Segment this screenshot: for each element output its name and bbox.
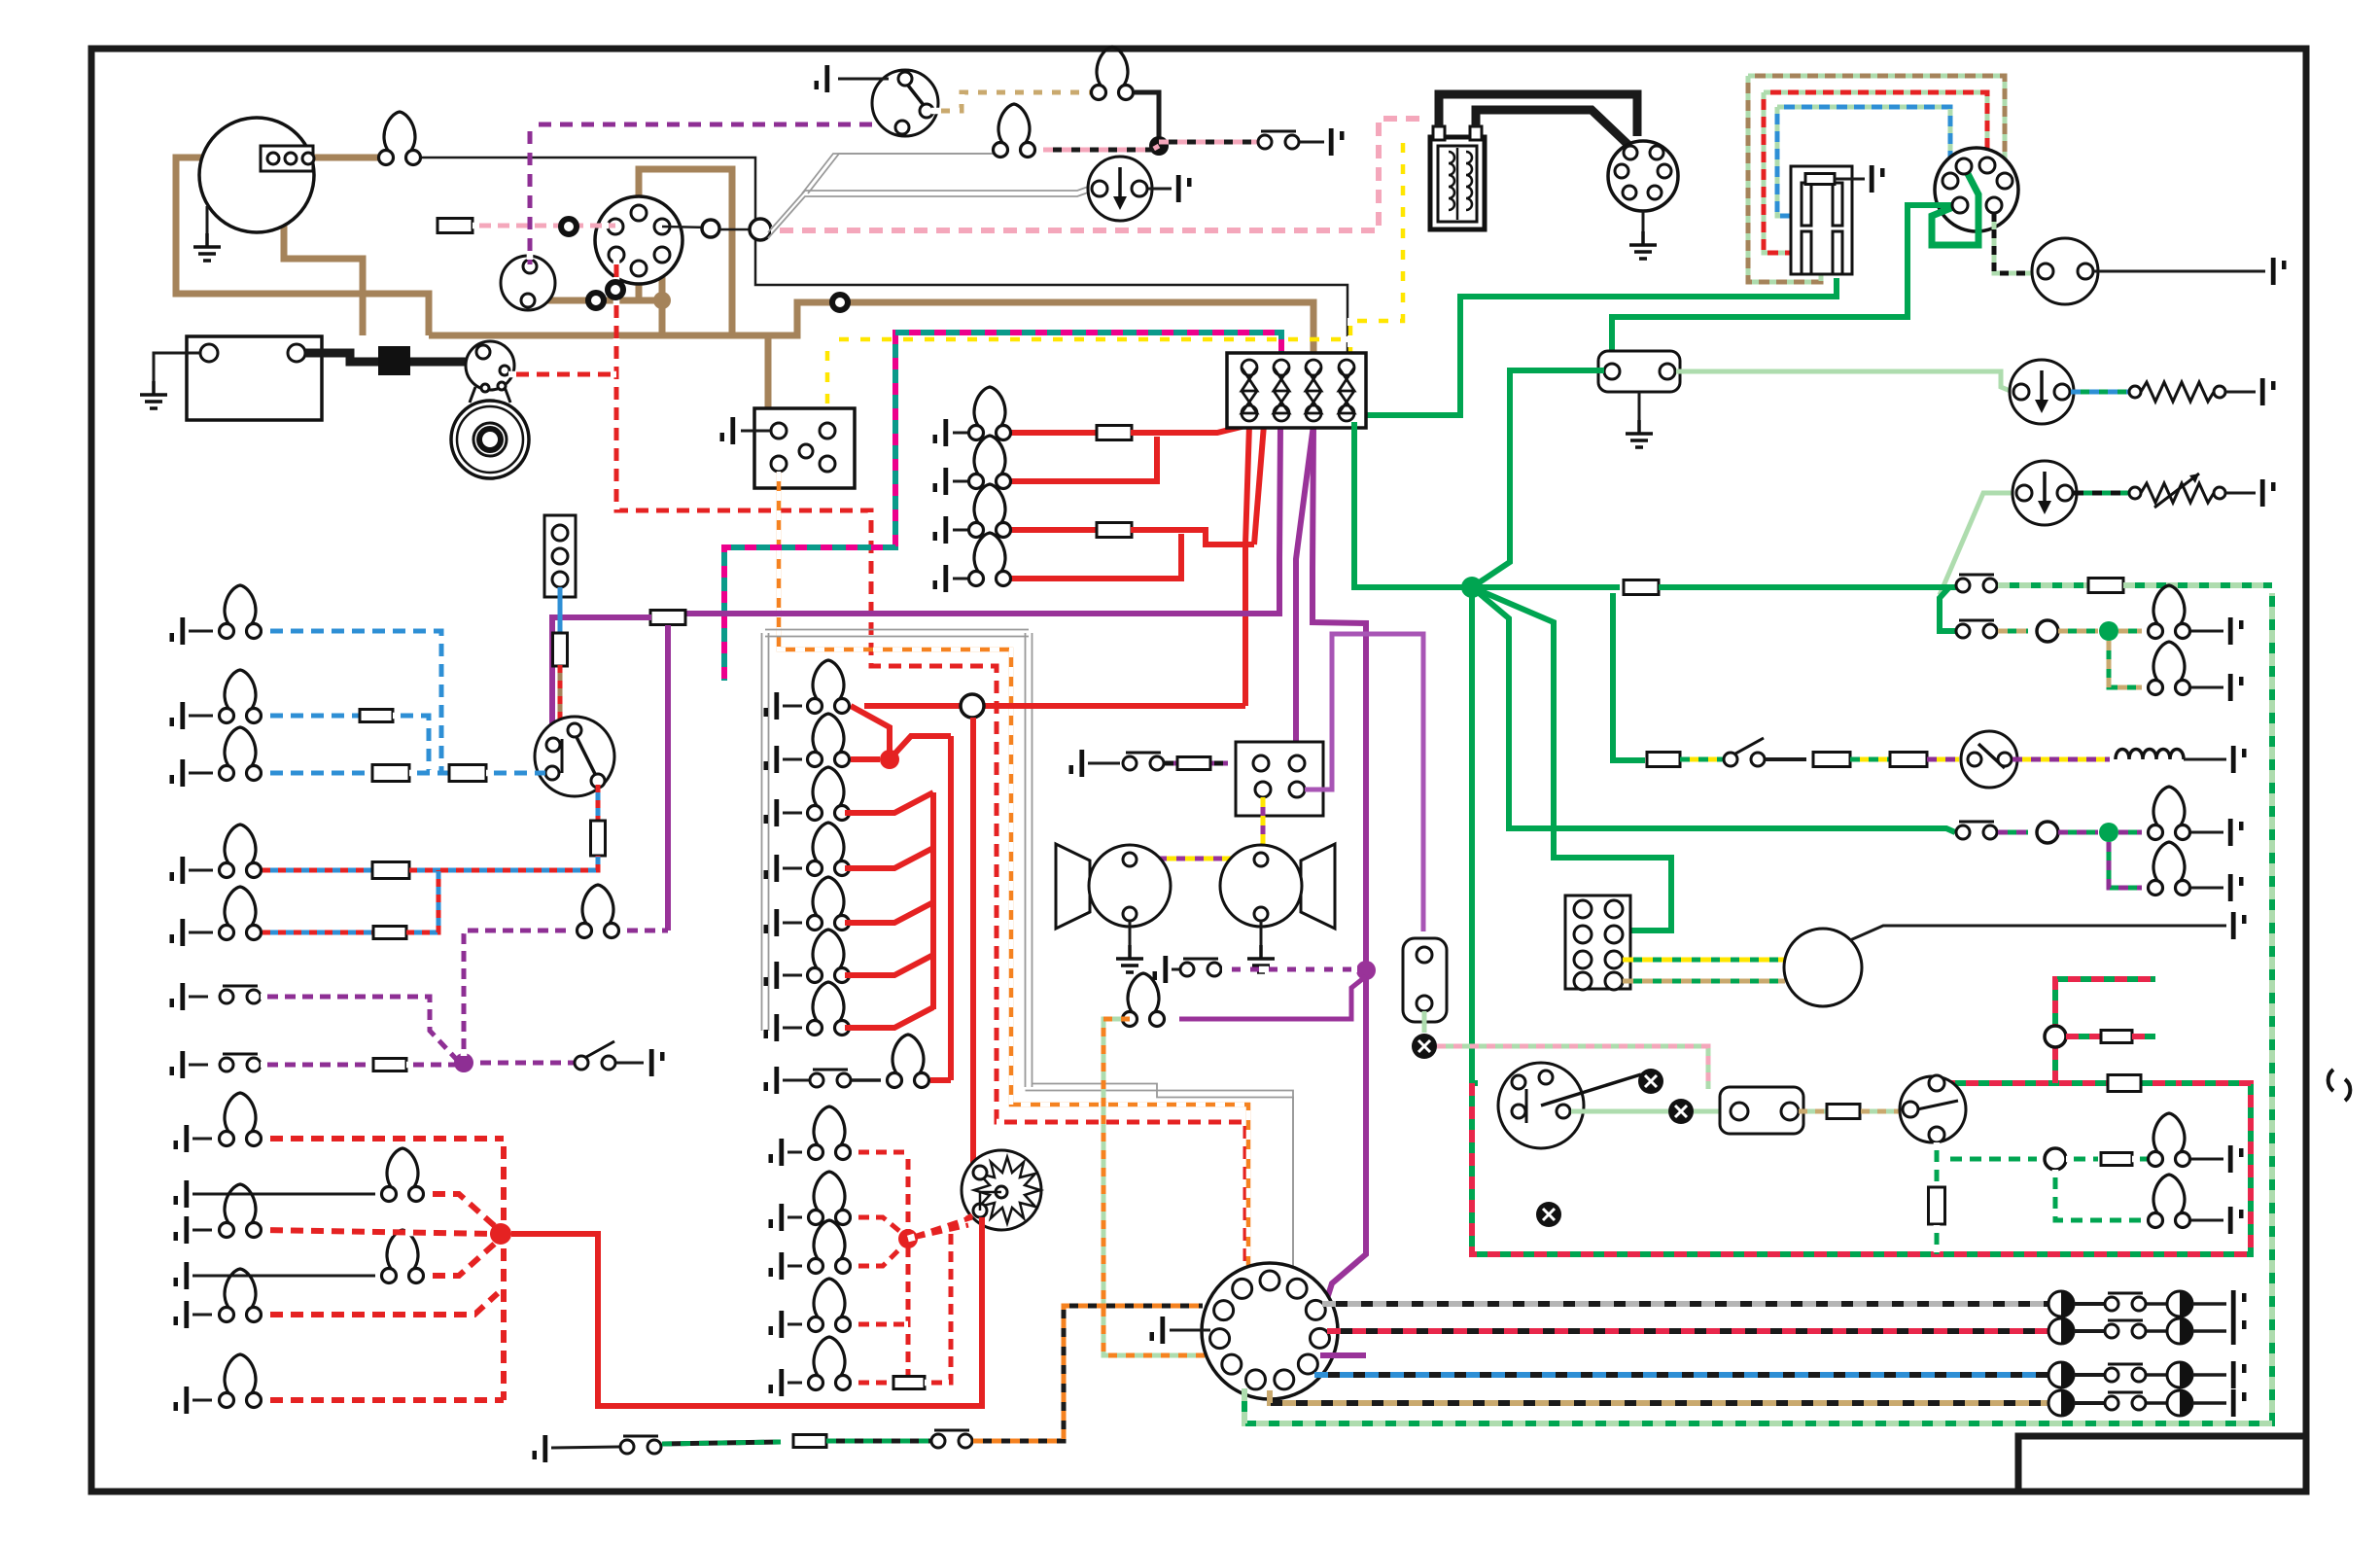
bulb bulb f2: [220, 1184, 262, 1238]
wire lgrn org map: [1103, 1019, 1206, 1355]
fuse F-p2: [373, 1059, 406, 1071]
wire lead red1: [953, 480, 976, 483]
wire blk right: [2093, 270, 2265, 273]
battery: [187, 336, 322, 420]
connector ring R1: [561, 219, 577, 234]
wire green diag2: [1472, 587, 1671, 931]
control box: [754, 408, 855, 488]
wire tan dash: [931, 92, 1091, 111]
wire purple trunk P3: [1312, 425, 1366, 972]
dip switch: [535, 717, 614, 796]
wire purple dash horiz: [530, 123, 875, 127]
wire grn tan r2b: [2058, 629, 2098, 634]
wire yel od3: [1927, 757, 1959, 762]
wire dl mid 1443: [2074, 1401, 2104, 1405]
wire green down: [1472, 587, 1478, 1083]
wire dl gnd 1443: [2192, 1401, 2226, 1405]
wire yellow horiz: [827, 338, 1350, 341]
wire pink main: [771, 119, 1427, 230]
fuse box: [1227, 353, 1366, 428]
wire pgrn tan link: [1799, 1109, 1826, 1114]
warning lamp WL-2: [1668, 1099, 1694, 1124]
ground G-door: [649, 1049, 665, 1076]
ground G-b4: [170, 857, 186, 884]
wire lead c0: [783, 705, 802, 708]
wire brown bus: [429, 302, 1313, 365]
wiper relay box: [1791, 166, 1852, 274]
wire dl mid 1369: [2074, 1329, 2104, 1333]
wire grn pale r1b: [2123, 582, 2272, 588]
wire dl mid2 1369: [2147, 1329, 2167, 1333]
switch SW-door: [575, 1041, 615, 1070]
wire red row 4: [1003, 534, 1181, 579]
wire blue r1: [262, 631, 441, 773]
wire lead red2: [953, 529, 976, 532]
wire red link 3: [845, 848, 933, 868]
bulb bulb r4: [2149, 787, 2190, 840]
wire red link row2: [851, 756, 880, 762]
wire redw r3: [852, 1322, 908, 1327]
wire green bottom: [1244, 593, 2272, 1423]
wire bh blue line: [1314, 1372, 2048, 1378]
wire brown gauge loop A: [176, 158, 429, 335]
junction brown: [653, 292, 671, 309]
wire fuel sender wire: [2071, 390, 2129, 395]
wire blue r2b: [393, 716, 429, 773]
wire orange dash: [779, 472, 1248, 1269]
wire greenred up: [2055, 979, 2155, 1083]
ground G-e4: [769, 1369, 785, 1396]
bulb bulb b3: [220, 727, 262, 781]
bulb bulb c3: [808, 823, 850, 876]
bulb bulb c4: [808, 877, 850, 931]
wire lead red0: [953, 432, 976, 435]
main light switch: [1498, 1063, 1584, 1148]
bulb bulb red0: [969, 387, 1011, 440]
wire lead b3: [189, 772, 213, 775]
wire pur diag: [1179, 976, 1366, 1019]
switch SW-p2: [220, 1054, 261, 1071]
connector C-red: [961, 694, 984, 718]
bulb bulb f1: [382, 1148, 424, 1202]
wire temp sender wire: [2074, 491, 2129, 496]
ground G-hL: [1116, 945, 1143, 972]
switch SW-od2: [1724, 738, 1765, 766]
wire pink wire long: [662, 227, 711, 228]
wire gnd lead r2b: [2191, 686, 2223, 689]
fog switch: [1900, 1076, 1966, 1142]
wire purw r2b: [406, 1063, 457, 1068]
wire grntan dyn: [1623, 979, 1785, 984]
ground G-rev: [533, 1435, 548, 1462]
bulb bulb red2: [969, 484, 1011, 538]
ground gauge earth: [193, 233, 221, 261]
wire gnd lead gw2: [2191, 1219, 2223, 1222]
fuse F-pur: [650, 611, 685, 625]
wire dl mid2 1443: [2147, 1401, 2167, 1405]
wire yelpur od: [2012, 757, 2110, 762]
ground G-r2: [2228, 617, 2244, 645]
bulb bulb map: [1123, 973, 1165, 1027]
wire rg loop2: [1764, 92, 1802, 253]
wire brown 7pin bottom: [636, 268, 643, 300]
wire red dash solenoid stub: [508, 372, 616, 377]
wire hornL gnd: [1129, 921, 1132, 945]
wire grn pur drop: [2109, 842, 2142, 888]
wire red link 2: [845, 792, 933, 813]
bulb bulb r4b: [2149, 842, 2190, 895]
connector C-r2: [2037, 620, 2058, 642]
ground G-b2: [170, 702, 186, 729]
bulb bulb c0: [808, 660, 850, 714]
ground G-r4: [2228, 819, 2244, 846]
wire purple fan 1: [1296, 425, 1313, 742]
wire yellow drop: [826, 339, 829, 428]
starter motor: [451, 401, 529, 478]
wire grn tan drop: [2109, 641, 2142, 687]
bulb bulb red1: [969, 436, 1011, 489]
ammeter gauge: [199, 118, 314, 232]
bulb bulb c2: [808, 767, 850, 821]
wire lead f3: [192, 1275, 375, 1278]
wire blue r3b: [409, 771, 449, 776]
wire grn jog r2: [1940, 587, 1955, 631]
ground G-p1: [170, 983, 186, 1010]
bulb bulb c5: [808, 930, 850, 983]
wire yelgrn od2: [1850, 757, 1891, 762]
wire coil HT 2: [1476, 110, 1631, 148]
wire grey pair: [765, 629, 1029, 631]
fuse element 1285: [1242, 360, 1257, 421]
wire purple left drop: [552, 617, 651, 741]
wire dyn black: [1850, 926, 2226, 940]
ground G-map: [1153, 956, 1169, 983]
wire green right2: [1659, 584, 1956, 590]
connector C2: [750, 219, 771, 240]
wire grn tan r2c: [2118, 629, 2142, 634]
bulb bulb b2: [220, 670, 262, 723]
temp sender: [2129, 487, 2141, 499]
oil pressure gauge: [1088, 157, 1152, 221]
fuse F-b2: [360, 710, 393, 722]
wire purple fan 2: [1279, 425, 1280, 616]
wire black pink 3: [1159, 140, 1258, 145]
ground G-e0: [769, 1139, 785, 1166]
wire pink wire: [472, 224, 615, 228]
ground G-d1369: [2231, 1317, 2247, 1345]
wire purw to switch: [473, 1061, 574, 1066]
fuse F-rev: [793, 1435, 826, 1448]
wire lead c5: [783, 974, 802, 977]
fuse F-r3: [1097, 523, 1132, 538]
wire fuel gnd lead: [2225, 391, 2256, 394]
light switch connector: [1935, 148, 2018, 231]
wire green up: [1472, 370, 1604, 587]
wire purple blk horn: [1165, 761, 1228, 766]
switch SW-p1: [220, 986, 261, 1003]
wire blk od gnd: [2184, 758, 2226, 761]
wire red bus A: [930, 792, 936, 1009]
ground G-cb: [720, 417, 736, 444]
ignition coil: [1430, 137, 1485, 229]
fuse element 1385: [1339, 360, 1354, 421]
ground G-d1341: [2231, 1290, 2247, 1317]
ground G-e1: [769, 1204, 785, 1231]
lamp DL-1414: [2048, 1362, 2074, 1387]
ground G-fl: [1626, 420, 1653, 447]
wire lead c3: [783, 867, 802, 870]
wire coil HT 1: [1439, 94, 1637, 136]
wire lead c6: [783, 1027, 802, 1030]
wire purple dash vert: [528, 123, 533, 264]
fuse F-b3b: [449, 765, 486, 782]
wire blue r2: [262, 714, 360, 719]
wire lead c8b: [852, 1078, 881, 1082]
ground G-c4: [764, 909, 780, 936]
wire purw r2: [261, 1063, 373, 1068]
wire temp gnd lead: [2225, 492, 2256, 495]
wire battery cable: [305, 353, 486, 362]
wire red c8: [930, 1077, 951, 1083]
wire pur-yel horns: [1139, 797, 1263, 859]
fuse F-wm: [1805, 174, 1835, 185]
wire greenred br: [2066, 1034, 2100, 1039]
bulb inline connector: [379, 112, 421, 165]
ground battery earth: [140, 381, 167, 408]
wire redd r1: [425, 1194, 496, 1227]
wire gnd lead oil: [1148, 188, 1172, 191]
wire grn pale r1: [1998, 582, 2088, 588]
fuse F-b3: [372, 765, 409, 782]
fuse element 1318: [1274, 360, 1289, 421]
ground G-oil: [1176, 175, 1192, 202]
wire purw riser: [464, 931, 571, 1056]
wire yellow dash ovl: [1350, 131, 1403, 362]
wire brown connector link: [528, 298, 662, 304]
wire bluered r4: [262, 868, 373, 873]
ground G-e2: [769, 1252, 785, 1280]
bulb bulb panel: [577, 885, 619, 938]
wire magenta trunk: [724, 333, 1281, 681]
bulb warn bulb 2: [994, 104, 1035, 158]
ground G-c6: [764, 1014, 780, 1041]
wire lead map: [1172, 968, 1179, 971]
wire red row 1: [1003, 430, 1098, 436]
wire brown 7pin top: [639, 169, 732, 335]
wire green diag1: [1472, 587, 1955, 832]
wire black pink 1: [1135, 92, 1159, 142]
junction purple dash: [454, 1053, 473, 1072]
wire gauge ground lead: [206, 206, 209, 233]
wire red drop long: [970, 718, 976, 1170]
ground G-ob: [1329, 128, 1345, 156]
wire yelgrn od: [1680, 757, 1727, 762]
wire grey pair 2: [1032, 1084, 1294, 1275]
wire dl mid2 1414: [2147, 1373, 2167, 1377]
junction block: [1565, 895, 1630, 989]
wire blkgrn2: [826, 1439, 930, 1444]
wire lead e4: [787, 1382, 802, 1385]
wire bh grey line: [1322, 1301, 2048, 1307]
wire gnd lead bh: [1170, 1329, 1210, 1332]
horn L: [1056, 844, 1090, 929]
wire gnd lead gw1: [2191, 1158, 2223, 1161]
wire rg loop: [1764, 92, 1987, 161]
ground G-e3: [769, 1311, 785, 1338]
wire redw r2: [852, 1245, 904, 1266]
wire greenred left: [1942, 1080, 2178, 1086]
wire grnw row2: [1942, 1157, 2037, 1162]
ground G-f2: [174, 1216, 190, 1244]
wire white pair bulb: [802, 154, 994, 193]
fuse F-od1: [1647, 753, 1680, 767]
wire bg loop2: [1777, 107, 1802, 216]
connector C-r4: [2037, 822, 2058, 843]
fusible link: [378, 346, 410, 375]
ground G-red0: [933, 419, 949, 446]
wire green C: [1612, 205, 1960, 365]
wire dl mid 1414: [2074, 1373, 2104, 1377]
wire redw r0: [852, 1150, 908, 1155]
ground G-wm: [1870, 165, 1885, 193]
wire lead f1: [192, 1193, 375, 1196]
wire brown gauge loop B: [284, 166, 363, 335]
junction red dash 2: [490, 1223, 511, 1245]
fuse element 1351: [1306, 360, 1321, 421]
ground G-b1: [170, 617, 186, 645]
wire bh tan line: [1270, 1390, 2048, 1403]
wire redw diag1: [908, 1217, 972, 1239]
wire bluered r5b: [406, 870, 438, 932]
bulb bulb b1: [220, 585, 262, 639]
wire red fan 2: [1254, 425, 1264, 544]
junction black: [1149, 136, 1169, 156]
wire thin black to fusebox: [415, 158, 1347, 365]
wire grn pur r4b: [2058, 830, 2098, 835]
dynamo: [1784, 929, 1862, 1006]
ground G-b3: [170, 759, 186, 787]
fuse F-r1: [1097, 426, 1132, 440]
bulb bulb r2: [2149, 585, 2190, 639]
connector C-gr: [2045, 1026, 2066, 1047]
bulb bulb r2b: [2149, 642, 2190, 695]
wire red top horiz: [864, 703, 1245, 709]
bulb bulb c6: [808, 982, 850, 1036]
wire lead c8: [783, 1079, 809, 1082]
wire gnd lead r2: [2191, 630, 2223, 633]
wire grnw row3: [2066, 1157, 2098, 1162]
wire bluered r5: [262, 931, 373, 935]
wire pgrn box link: [1694, 1109, 1732, 1114]
distributor: [1608, 141, 1678, 211]
wire bluered r4b: [409, 856, 598, 870]
solenoid coil: [2116, 750, 2184, 760]
wire yellow wire: [1350, 131, 1403, 365]
wire brnred drop: [558, 665, 563, 720]
bulb bulb gw1: [2149, 1113, 2190, 1167]
bulb bulb e3: [809, 1279, 851, 1332]
switch SW-d1443: [2105, 1392, 2146, 1410]
wire gnd lead door: [616, 1062, 644, 1065]
wire redd r4: [262, 1293, 498, 1315]
3-pin connector: [501, 256, 555, 310]
ground G-f4: [174, 1301, 190, 1328]
switch SW-od: [931, 1430, 972, 1448]
ground G-d1443: [2231, 1389, 2247, 1417]
ground G-p2: [170, 1051, 186, 1078]
wire white pair: [768, 186, 1091, 232]
fuse F-e4: [893, 1377, 925, 1389]
wire grnw row4: [2132, 1157, 2155, 1162]
connector C-gw: [2045, 1148, 2066, 1170]
brake warning connector: [1403, 938, 1447, 1022]
wire lead horn: [1088, 762, 1120, 765]
wire redw v: [906, 1152, 911, 1383]
bulb bulb f0: [220, 1093, 262, 1146]
wire lead f2: [192, 1229, 212, 1232]
wire battery earth lead: [154, 353, 200, 381]
lamp DR-1369: [2167, 1318, 2192, 1344]
connector ring R4: [832, 295, 848, 310]
wire pur panel link: [620, 929, 668, 933]
wire red row 1b: [1131, 425, 1249, 433]
wire purple panel trunk: [665, 625, 671, 931]
wire green right: [1479, 584, 1620, 590]
wire redd r2: [262, 1230, 496, 1234]
wire red link 1: [851, 706, 890, 751]
wire purple trunk P1: [681, 611, 1279, 616]
wire gnd lead cb: [741, 430, 771, 433]
ground G-c0: [764, 692, 780, 720]
ground G-od: [2231, 746, 2247, 773]
fuse F-br4: [372, 862, 409, 879]
wire lead e1: [787, 1216, 802, 1219]
wire redd v: [501, 1139, 507, 1400]
wire gnd lead r4: [2191, 831, 2223, 834]
flasher unit: [1598, 351, 1680, 392]
wire lead f4: [192, 1314, 212, 1317]
wire red row 3b: [1131, 530, 1254, 544]
wire pgrn sw link: [1571, 1109, 1668, 1114]
ground G-bh: [1150, 1317, 1166, 1344]
wire purple relay out: [1305, 634, 1423, 931]
wire dl gnd 1414: [2192, 1373, 2226, 1377]
wire red dash main: [616, 257, 1245, 1269]
switch SW-r2: [1956, 620, 1997, 638]
registration mark: [2328, 1070, 2351, 1101]
wire lead b1: [189, 630, 213, 633]
wire red bus B: [948, 736, 954, 1080]
ground G-f1: [174, 1180, 190, 1208]
fuse F-horn: [1177, 757, 1210, 770]
wire brown gauge feed: [302, 155, 378, 161]
wire red bottom long: [511, 1217, 982, 1406]
switch SW-d1414: [2105, 1364, 2146, 1382]
ground G-temp: [2260, 479, 2276, 507]
ground G-gw2: [2228, 1207, 2244, 1234]
wire red dot diag: [890, 736, 951, 759]
fuse F-gr: [2108, 1075, 2141, 1092]
wire pink long: [719, 228, 760, 231]
bulb bulb gw2: [2149, 1175, 2190, 1228]
junction red: [880, 750, 899, 769]
switch SW-d1369: [2105, 1320, 2146, 1338]
ground G-r4b: [2228, 874, 2244, 901]
lamp DR-1341: [2167, 1291, 2192, 1317]
wire blk od: [1766, 757, 1806, 761]
wire green main: [1360, 278, 1837, 415]
wire red row 2: [1003, 437, 1157, 481]
